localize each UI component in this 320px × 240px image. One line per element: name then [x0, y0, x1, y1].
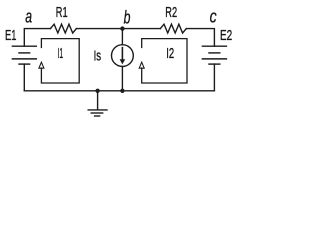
voltage source E1 battery	[12, 46, 36, 64]
svg-text:E1: E1	[5, 27, 16, 44]
svg-text:R1: R1	[56, 4, 68, 21]
svg-text:c: c	[210, 7, 217, 27]
svg-text:I2: I2	[166, 45, 174, 62]
svg-text:a: a	[25, 6, 32, 26]
wire: node b down to current source	[121, 29, 123, 45]
svg-text:b: b	[124, 7, 131, 27]
current source Is circle	[112, 45, 134, 67]
ground	[88, 91, 107, 116]
svg-text:I1: I1	[58, 45, 64, 62]
svg-text:R2: R2	[165, 4, 177, 21]
svg-text:Is: Is	[94, 48, 102, 65]
junction dot above ground	[95, 89, 99, 93]
bottom wire (ground net)	[24, 90, 214, 92]
wire top-right: node c segment from R2 to E2	[186, 29, 214, 47]
mesh loop I2	[139, 39, 187, 83]
mesh loop I1	[39, 39, 79, 83]
resistor R1	[50, 24, 76, 33]
resistor R2	[160, 24, 186, 33]
voltage source E2 battery	[202, 46, 226, 64]
wire: E2 bottom stub	[213, 64, 215, 91]
wire: R1 to R2 through node b	[76, 28, 160, 30]
wire top-left: node a segment from E1 to R1	[24, 29, 50, 47]
junction dot at current source bottom	[120, 89, 124, 93]
junction dot node b	[120, 26, 124, 30]
wire: E1 bottom stub	[23, 64, 25, 91]
current source arrow	[120, 47, 126, 65]
svg-text:E2: E2	[220, 27, 232, 44]
wire: current source to bottom wire	[121, 67, 123, 91]
